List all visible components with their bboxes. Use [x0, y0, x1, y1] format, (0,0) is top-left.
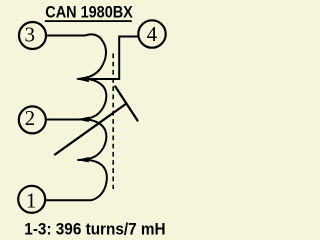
- svg-text:4: 4: [147, 22, 158, 46]
- preset adjustment shaft: [55, 104, 126, 155]
- svg-text:2: 2: [25, 106, 36, 130]
- coil cusp tail 1: [76, 76, 89, 82]
- svg-text:3: 3: [24, 23, 35, 47]
- terminal circle 4: [138, 20, 165, 47]
- svg-text:CAN 1980BX: CAN 1980BX: [45, 4, 133, 22]
- coil cusp tail 3: [77, 157, 89, 162]
- wire pin2 to coil tap: [47, 119, 80, 121]
- terminal circle 1: [18, 186, 45, 213]
- core dashed line: [112, 54, 114, 190]
- svg-text:1: 1: [26, 188, 37, 212]
- preset adjustment T-bar: [115, 87, 137, 121]
- terminal circle 2: [19, 106, 46, 133]
- svg-text:1-3: 396 turns/7 mH: 1-3: 396 turns/7 mH: [24, 220, 165, 239]
- wire pin4 down to tap arrow: [88, 37, 138, 80]
- title underline: [45, 20, 132, 22]
- terminal circle 3: [19, 22, 46, 49]
- wire pin3 to coil top + inductor L1 winding (4 loops with cusp tails): [46, 34, 107, 200]
- coil cusp tail 2: [77, 117, 89, 122]
